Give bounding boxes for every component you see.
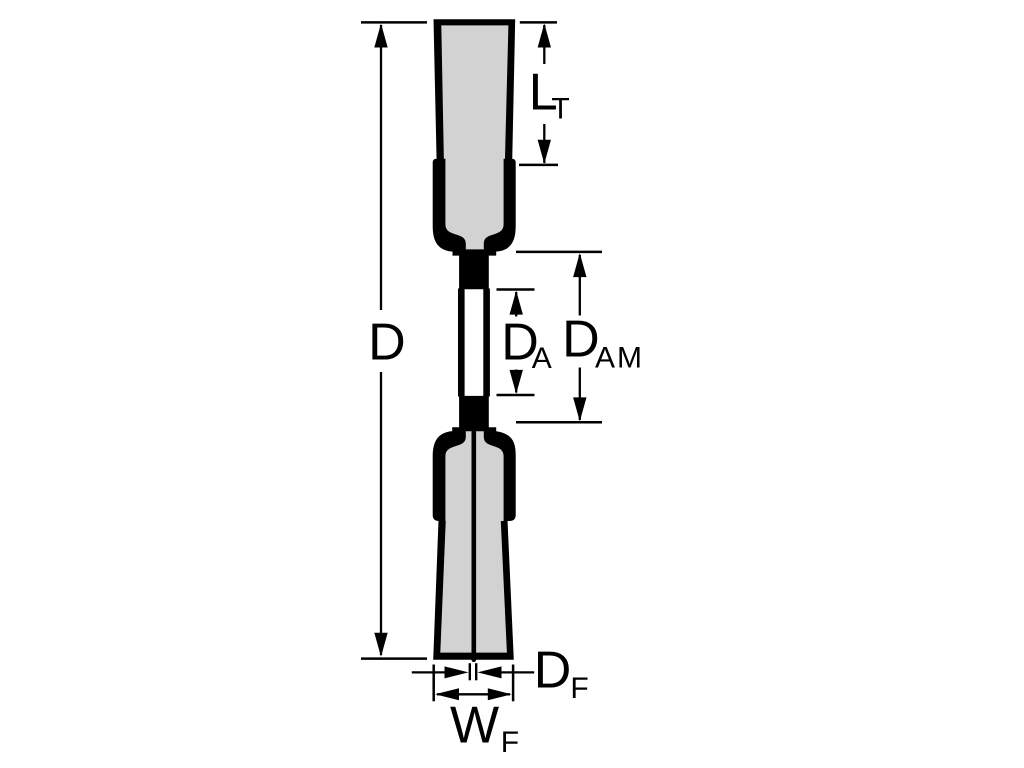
- dimension DAM bottom tick: [516, 421, 602, 424]
- svg-text:AM: AM: [595, 341, 644, 374]
- dimension DF left arrow: [445, 666, 469, 678]
- dimension DAM line upper segment: [579, 255, 581, 316]
- dimension DA line lower segment: [515, 370, 517, 393]
- dimension WF right arrow: [488, 688, 512, 700]
- dimension DAM top arrow: [573, 253, 586, 277]
- lower flange interior fill: [445, 431, 503, 521]
- upper brush tuft outline: [434, 19, 516, 161]
- dimension DAM top tick: [516, 251, 602, 254]
- axle tube left wall: [458, 289, 465, 397]
- center filament parting line: [472, 430, 477, 662]
- dimension LT bottom arrow: [538, 140, 551, 164]
- dimension D top arrow: [374, 24, 387, 48]
- dimension DF center left tick: [469, 663, 471, 680]
- dimension D bottom arrow: [374, 633, 387, 657]
- dimension DA bottom arrow: [510, 370, 523, 394]
- dimension LT line lower segment: [543, 124, 545, 163]
- dimension LT top arrow: [538, 24, 551, 48]
- dimension D line lower segment: [380, 372, 382, 655]
- dimension DF right arrow: [478, 666, 502, 678]
- upper sleeve interior fill: [445, 150, 503, 249]
- svg-text:W: W: [450, 697, 499, 755]
- dimension LT top tick: [520, 21, 557, 24]
- svg-text:D: D: [534, 642, 572, 700]
- dimension DF line right segment: [499, 671, 534, 673]
- dimension DF center right tick: [475, 663, 477, 680]
- dimension WF left arrow: [435, 688, 459, 700]
- svg-text:T: T: [551, 92, 569, 125]
- dimension D line upper segment: [380, 25, 382, 310]
- axle tube right wall: [483, 289, 490, 397]
- dimension WF line: [437, 693, 510, 695]
- dimension LT line upper segment: [543, 25, 545, 64]
- dimension D bottom tick: [361, 657, 427, 660]
- upper clamping sleeve: [433, 159, 516, 290]
- dimension DAM bottom arrow: [573, 397, 586, 421]
- upper brush tuft fill: [441, 25, 508, 161]
- svg-text:F: F: [501, 726, 519, 759]
- dimension DA top tick: [497, 288, 535, 291]
- lower neck and flange: [433, 396, 516, 521]
- dimension DAM line lower segment: [579, 368, 581, 421]
- lower brush tuft fill: [440, 517, 507, 653]
- dimension D top tick: [361, 21, 427, 24]
- dimension DA line upper segment: [515, 292, 517, 317]
- dimension LT bottom tick: [519, 164, 558, 167]
- dimension DF left tick: [432, 665, 435, 702]
- svg-text:F: F: [570, 672, 588, 705]
- dimension DF right tick: [512, 665, 515, 702]
- lower brush tuft outline: [433, 518, 514, 660]
- dimension DA top arrow: [510, 291, 523, 315]
- dimension DF line left segment: [412, 671, 447, 673]
- dimension DA bottom tick: [497, 394, 535, 397]
- svg-text:A: A: [532, 342, 552, 375]
- svg-text:D: D: [368, 313, 406, 371]
